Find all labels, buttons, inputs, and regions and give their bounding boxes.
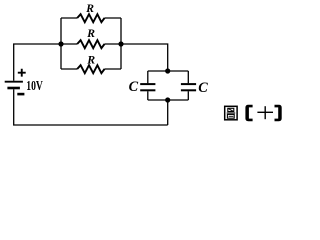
caption: closing bracket 】	[275, 105, 282, 121]
node: capacitor bottom rail junction dot	[165, 97, 170, 102]
svg-text:10V: 10V	[26, 78, 43, 93]
resistor R (middle branch)	[77, 40, 104, 48]
battery - polarity mark	[17, 93, 24, 96]
wire: capacitor C2 stubs	[187, 71, 189, 100]
capacitor C1 plates	[140, 84, 155, 90]
wire: capacitor C1 stubs	[147, 71, 149, 100]
svg-text:C: C	[129, 79, 139, 95]
wire: resistor bank left rail	[60, 18, 62, 69]
svg-text:R: R	[86, 26, 95, 40]
battery + polarity mark	[18, 69, 26, 77]
wire: bottom resistor branch leads	[61, 68, 121, 70]
wire: capacitor bank top rail	[148, 70, 189, 72]
node A junction dot (left resistor node)	[58, 41, 63, 46]
wire: resistor bank right rail	[120, 18, 122, 69]
svg-text:R: R	[86, 53, 95, 67]
capacitor C2 plates	[181, 84, 196, 90]
wire: top resistor branch leads	[61, 17, 121, 19]
resistor R (bottom branch)	[77, 65, 104, 73]
node B junction dot (right resistor node)	[118, 41, 123, 46]
wire: node B to capacitor-bank top feed	[121, 44, 168, 71]
wire: capacitor-bank bottom feed	[167, 100, 169, 125]
caption: opening bracket 【	[245, 105, 252, 121]
wire: capacitor bank bottom rail	[148, 99, 189, 101]
wire: battery + terminal up to top-left corner and right to node A	[14, 44, 61, 81]
svg-text:R: R	[85, 1, 94, 15]
node: capacitor top rail junction dot	[165, 68, 170, 73]
battery V1 plates (10V source)	[5, 82, 23, 88]
wire: battery - terminal down and bottom return wire	[14, 89, 168, 125]
wire: middle resistor branch leads	[61, 43, 121, 45]
caption: figure label 圖 glyph	[225, 106, 237, 120]
resistor R (top branch)	[77, 14, 104, 22]
caption: 十 glyph	[257, 106, 273, 119]
svg-text:C: C	[198, 80, 208, 96]
